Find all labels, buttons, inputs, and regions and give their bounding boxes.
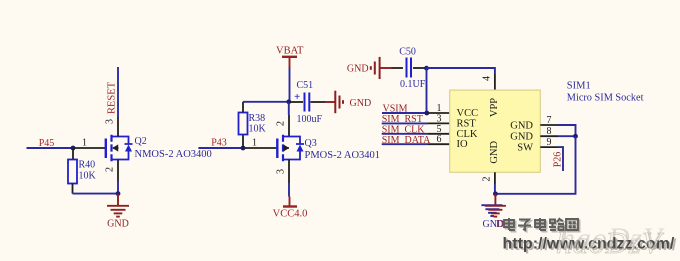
pin name IO [457, 139, 468, 150]
wire R38 bottom pin (black) [242, 135, 244, 149]
svg-text:IO: IO [457, 139, 468, 150]
wire Q3 bottom pin (black) [288, 160, 290, 184]
label Micro SIM Socket [567, 93, 644, 104]
svg-text:10K: 10K [79, 171, 97, 182]
wire pin 8 to right rail [558, 135, 576, 137]
wire pin 7 to right rail [558, 125, 576, 136]
wire node D down to Q3 [288, 102, 290, 115]
wire R40 bottom pin (black) [72, 184, 74, 194]
wire Q3 to VCC4.0 [288, 183, 290, 197]
wire P43 to node C [198, 147, 243, 149]
svg-text:1: 1 [82, 138, 87, 149]
label Q3 designator [305, 138, 317, 149]
watermark url [503, 236, 675, 253]
wire pin 1 VCC (black) [427, 112, 450, 114]
pin name GND (pin 8) [510, 131, 533, 142]
pin number 5 (CLK) [437, 124, 442, 135]
svg-text:2: 2 [482, 177, 493, 182]
svg-text:P26: P26 [553, 152, 564, 168]
wire Q2 gate pin [73, 147, 106, 149]
svg-text:+: + [294, 91, 300, 103]
wire pin 2 GND (black) [494, 172, 496, 184]
port P26 (rotated) [553, 152, 564, 168]
wire Q3 top pin (black) [288, 115, 290, 137]
svg-text:P43: P43 [211, 138, 227, 149]
pin name RST [457, 118, 477, 129]
node F (VSIM/pin1 junction) [424, 111, 429, 116]
net label SIM_CLK [382, 124, 426, 135]
transistor Q2 [106, 135, 133, 161]
svg-text:6: 6 [437, 134, 442, 145]
svg-text:3: 3 [437, 113, 442, 124]
wire node D to C51 (black pin) [289, 101, 303, 103]
pin number 7 [547, 115, 552, 126]
watermark site name (CJK strokes imitation of dian-zi-dian-lu-wang) [506, 220, 580, 232]
resistor R40 [68, 160, 77, 184]
node B (R40/Q2 source junction) [116, 191, 121, 196]
net label VSIM [383, 104, 408, 115]
wire RESET stub [117, 67, 119, 117]
IC U1 SIM socket body [450, 90, 541, 172]
ground GND (bottom, red) [485, 194, 506, 230]
wire pin 9 SW (black) [540, 146, 558, 148]
wire SIM_DATA [382, 143, 428, 145]
label C50 designator [399, 47, 416, 58]
svg-text:SW: SW [517, 142, 533, 153]
wire C50 left pin (black) [392, 67, 404, 69]
wire R38 top pin (black) [242, 102, 244, 113]
wire node E down to VSIM row [426, 68, 428, 113]
wire R38 to VBAT rail [243, 101, 289, 103]
label C51 value 100uF [297, 114, 323, 125]
svg-text:VCC: VCC [457, 108, 479, 119]
svg-text:3: 3 [105, 119, 116, 124]
svg-text:7: 7 [547, 115, 552, 126]
watermark url shadow [505, 237, 677, 254]
wire VBAT down to node D [289, 67, 291, 102]
watermark ghost logo (overlay) [556, 225, 664, 260]
ground GND (left, under Q2) [107, 194, 129, 230]
pin number 3 (Q3 bottom) [276, 169, 287, 174]
net label RESET [107, 81, 118, 114]
pin name GND (rotated, bottom) [489, 141, 500, 164]
pin number 2 (Q2 source) [105, 167, 116, 172]
wire pin 4 VPP (black) [494, 74, 496, 90]
svg-text:GND: GND [510, 120, 533, 131]
svg-text:CLK: CLK [457, 129, 478, 140]
svg-text:1: 1 [437, 103, 442, 114]
label R40 designator [79, 160, 96, 171]
wire pin 2 to ground node [494, 184, 496, 194]
port P43 [211, 138, 227, 149]
power ground GND (right of C51, bars) [325, 91, 371, 114]
label Q2 comment NMOS-2 AO3400 [135, 149, 212, 160]
svg-text:Q2: Q2 [135, 136, 147, 147]
wire SIM_CLK [382, 133, 428, 135]
watermark ghost logo (underlay) [560, 222, 665, 255]
svg-text:Q3: Q3 [305, 138, 317, 149]
capacitor C51 [294, 91, 309, 112]
svg-text:GND: GND [347, 64, 369, 75]
svg-text:9: 9 [547, 137, 552, 148]
node G (pin7/pin8 rail junction) [573, 134, 578, 139]
svg-text:1: 1 [252, 138, 257, 149]
svg-text:5: 5 [437, 124, 442, 135]
label C51 designator [297, 80, 314, 91]
svg-text:C50: C50 [399, 47, 416, 58]
ground GND (bottom, double-printed blue) [481, 205, 504, 230]
power ground GND (top, left of C50) [347, 57, 392, 79]
pin number 3 (Q2 drain) [105, 119, 116, 124]
wire pin 8 GND (black) [540, 135, 558, 137]
svg-text:3: 3 [276, 169, 287, 174]
pin number 6 (IO) [437, 134, 442, 145]
wire pin 6 IO (black) [428, 143, 450, 145]
power port VBAT [276, 46, 304, 67]
pin name SW (pin 9) [517, 142, 533, 153]
svg-text:8: 8 [547, 126, 552, 137]
svg-text:SIM1: SIM1 [567, 81, 591, 92]
pin number 8 [547, 126, 552, 137]
wire right rail down [495, 136, 575, 194]
svg-text:GND: GND [107, 218, 129, 229]
capacitor C50 [407, 58, 412, 78]
wire pin 7 GND (black) [540, 124, 558, 126]
svg-text:R38: R38 [249, 113, 266, 124]
label SIM1 designator [567, 81, 591, 92]
svg-text:GND: GND [350, 98, 372, 109]
resistor R38 [239, 113, 248, 135]
svg-text:GND: GND [489, 141, 500, 164]
label R40 value 10K [79, 171, 97, 182]
wire VSIM [382, 112, 427, 114]
svg-text:0.1UF: 0.1UF [400, 79, 426, 90]
wire Q2 drain pin (black) [117, 117, 119, 137]
node C (P43/R38/Q3 gate junction) [241, 146, 246, 151]
port P45 [39, 138, 55, 149]
svg-text:GND: GND [510, 131, 533, 142]
pin name VPP (rotated) [489, 98, 500, 117]
wire Q2 source to ground rail [117, 181, 119, 194]
svg-text:VCC4.0: VCC4.0 [273, 209, 308, 220]
svg-text:2: 2 [276, 121, 287, 126]
pin name CLK [457, 129, 478, 140]
svg-text:C51: C51 [297, 80, 314, 91]
wire C50 right pin (black) [413, 67, 427, 69]
svg-text:100uF: 100uF [297, 114, 323, 125]
wire C51 right pin (black) [311, 101, 326, 103]
label R38 value 10K [249, 124, 267, 135]
svg-text:Micro SIM Socket: Micro SIM Socket [567, 93, 644, 104]
transistor Q3 [277, 135, 304, 161]
wire Q2 source pin (black) [117, 160, 119, 182]
node E (C50/VPP/VSIM junction) [424, 66, 429, 71]
svg-text:10K: 10K [249, 124, 267, 135]
label R38 designator [249, 113, 266, 124]
wire R40 to ground rail [73, 193, 119, 195]
svg-text:NMOS-2 AO3400: NMOS-2 AO3400 [135, 149, 212, 160]
pin number 2 (Q3 top) [276, 121, 287, 126]
wire node E to pin 4 [427, 68, 495, 74]
pin number 1 (Q3 gate) [252, 138, 257, 149]
pin number 1 (Q2 gate) [82, 138, 87, 149]
label Q2 designator [135, 136, 147, 147]
svg-text:D: D [496, 219, 503, 230]
wire pin 3 RST (black) [428, 122, 450, 124]
wire R40 top pin (black) [72, 148, 74, 160]
svg-text:2: 2 [105, 167, 116, 172]
pin number 2 (SIM GND) [482, 177, 493, 182]
wire pin 5 CLK (black) [428, 133, 450, 135]
svg-text:haoDzV: haoDzV [556, 225, 664, 260]
node D (VBAT/R38/C51/Q3 junction) [286, 99, 291, 104]
pin number 4 (VPP) [482, 76, 493, 81]
net label SIM_RST [382, 114, 423, 125]
svg-text:VBAT: VBAT [276, 46, 304, 57]
wire SIM_RST [382, 122, 428, 124]
node A (P45/R40/Q2 gate junction) [71, 146, 76, 151]
pin number 1 (VCC) [437, 103, 442, 114]
pin name VCC [457, 108, 479, 119]
svg-text:4: 4 [482, 76, 493, 81]
power port VCC4.0 [273, 197, 308, 220]
svg-text:VPP: VPP [489, 98, 500, 117]
svg-text:R40: R40 [79, 160, 96, 171]
net label SIM_DATA [382, 135, 431, 146]
svg-text:RST: RST [457, 118, 477, 129]
pin name GND (pin 7) [510, 120, 533, 131]
pin number 3 (RST) [437, 113, 442, 124]
wire pin 9 to port P26 [558, 147, 563, 171]
wire P45 to node A [27, 147, 74, 149]
svg-text:PMOS-2 AO3401: PMOS-2 AO3401 [305, 150, 381, 161]
wire Q3 gate pin [243, 147, 277, 149]
label Q3 comment PMOS-2 AO3401 [305, 150, 381, 161]
node H (pin2/rail/ground junction) [493, 191, 498, 196]
pin number 9 [547, 137, 552, 148]
svg-text:RESET: RESET [107, 81, 118, 114]
label C50 value 0.1UF [400, 79, 426, 90]
